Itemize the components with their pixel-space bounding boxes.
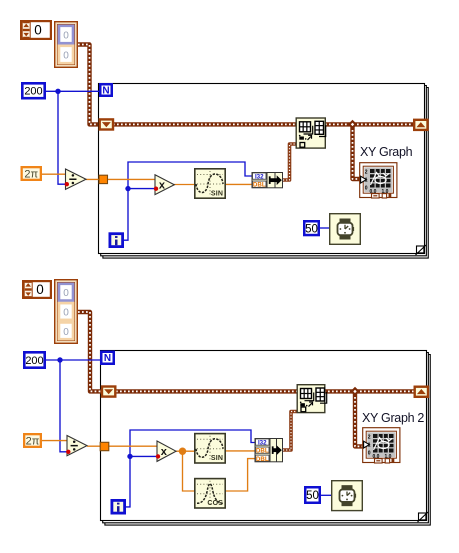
numeric constant 0 with increment/decrement loop2 — [23, 281, 51, 298]
svg-text:200: 200 — [25, 355, 43, 367]
junction: array wire branch loop2 — [350, 387, 359, 396]
Wait (ms) function loop1 — [330, 214, 361, 245]
svg-text:N: N — [104, 353, 111, 364]
wire: i terminal up and across to bundle I32 loop1 (blue) — [124, 162, 252, 240]
divide function loop2 — [67, 436, 87, 456]
svg-text:x: x — [159, 180, 166, 192]
numeric constant 200 loop1 — [22, 83, 44, 98]
wire: 2pi to divide loop2 (orange) — [42, 440, 67, 442]
svg-text:XY Graph: XY Graph — [360, 145, 413, 159]
numeric constant 50 loop2 — [305, 487, 320, 503]
terminal N loop2 — [101, 352, 114, 364]
svg-text:XY Graph 2: XY Graph 2 — [362, 411, 424, 425]
svg-text:SIN: SIN — [211, 455, 223, 462]
terminal i loop2 — [112, 500, 125, 513]
wire: array1 to left shift register (zigzag) — [78, 45, 98, 125]
svg-text:I32: I32 — [255, 174, 264, 181]
wire: branch down to COS loop2 (orange) — [183, 451, 195, 491]
wire: 200 to N terminal loop1 (blue) — [46, 90, 99, 92]
svg-text:I32: I32 — [258, 440, 267, 447]
svg-text:0: 0 — [63, 51, 69, 62]
wire: zigzag through Replace Array Subset 1 to right shift register — [113, 122, 414, 126]
svg-text:50: 50 — [305, 223, 318, 235]
wire: 200 branch down to divide loop1 (blue) — [58, 91, 66, 184]
divide function loop1 — [66, 169, 87, 189]
wire: 200 branch down to divide loop2 (blue) — [60, 360, 68, 452]
svg-text:0: 0 — [368, 451, 371, 457]
for-loop 1 border — [99, 84, 425, 254]
numeric constant 200 loop2 — [24, 352, 44, 367]
wire: zigzag branch down to XY Graph 2 — [355, 393, 363, 446]
XY Graph 2 indicator terminal — [362, 411, 424, 463]
wire: 200 to N terminal loop2 (blue) — [46, 359, 100, 361]
wire: zigzag through Replace Array Subset 2 to right shift register — [116, 389, 414, 393]
junction: array wire branch loop1 — [348, 120, 357, 129]
bundle function loop2 (I32 DBL DBL) — [255, 439, 283, 463]
array of cluster constant loop2 (3 elements) — [55, 280, 78, 344]
wire: COS out up to bundle DBL2 loop2 (orange) — [226, 459, 255, 491]
coercion dot multiply loop1 — [154, 187, 158, 191]
svg-text:0: 0 — [63, 288, 69, 299]
wire: SIN out to bundle DBL loop1 (orange) — [226, 183, 252, 185]
wire: divide out through tunnel to multiply loop2 (orange) — [87, 445, 157, 447]
left shift register loop1 — [100, 119, 113, 129]
svg-text:200: 200 — [24, 86, 42, 98]
node: blue junction dot loop1 at 200 branch — [55, 89, 60, 94]
coercion dot multiply loop2 — [156, 454, 160, 458]
wire: i branch to multiply loop1 (blue) — [128, 188, 155, 190]
multiply function loop2 — [157, 441, 176, 461]
svg-text:2: 2 — [365, 170, 368, 176]
COS function loop2 — [195, 479, 225, 508]
wire: array2 to left shift register (zigzag) — [78, 312, 101, 391]
svg-text:2: 2 — [368, 435, 371, 441]
right shift register loop1 — [414, 120, 427, 130]
multiply function loop1 — [155, 175, 174, 195]
Wait (ms) function loop2 — [332, 481, 363, 511]
coercion dot divide loop2 — [66, 450, 70, 454]
left shift register loop2 — [102, 387, 115, 397]
constant 2pi loop1 — [22, 167, 41, 180]
node: blue junction dot loop1 at i branch — [125, 186, 130, 191]
SIN function loop2 — [195, 434, 225, 463]
wire: divide out through tunnel to multiply loop1 (orange) — [86, 178, 155, 180]
terminal i loop1 — [110, 234, 123, 247]
Replace Array Subset loop2 — [297, 385, 327, 413]
svg-text:0: 0 — [63, 31, 69, 42]
coercion dot divide loop1 — [65, 182, 69, 186]
tunnel loop1 (orange) — [99, 175, 108, 183]
svg-text:0: 0 — [34, 23, 42, 38]
svg-text:COS: COS — [207, 500, 223, 507]
svg-text:DBL: DBL — [256, 448, 269, 455]
svg-text:50: 50 — [306, 490, 319, 502]
numeric constant 50 loop1 — [304, 221, 319, 235]
wire: 50 to Wait loop2 (blue) — [321, 494, 331, 496]
right shift register loop2 — [415, 387, 428, 397]
tunnel loop2 (orange) — [100, 442, 109, 450]
svg-text:N: N — [102, 85, 109, 96]
svg-text:DBL: DBL — [256, 456, 269, 463]
svg-text:x: x — [161, 446, 168, 458]
svg-text:0: 0 — [63, 308, 69, 319]
for-loop 2 border — [101, 351, 427, 521]
wire: 50 to Wait loop1 (blue) — [320, 227, 329, 229]
bundle function loop1 (I32 DBL) — [252, 173, 283, 189]
wire: i terminal up and across to bundle I32 loop2 (blue) — [126, 430, 255, 507]
svg-text:DBL: DBL — [253, 182, 266, 189]
svg-text:SIN: SIN — [211, 190, 223, 197]
svg-text:2π: 2π — [24, 168, 38, 180]
wire: zigzag branch down to XY Graph 1 — [353, 126, 361, 179]
node: orange junction dot loop2 — [179, 448, 186, 455]
node: blue junction dot loop2 at 200 branch — [57, 357, 62, 362]
wire: 2pi to divide loop1 (orange) — [40, 173, 66, 175]
SIN function loop1 — [195, 169, 225, 198]
wire: SIN out to bundle DBL loop2 (orange) — [226, 450, 255, 452]
XY Graph indicator terminal — [360, 145, 413, 198]
numeric constant 0 with increment/decrement loop1 — [21, 21, 51, 39]
wire: multiply out to SIN loop2 (orange) — [176, 450, 194, 452]
terminal N loop1 — [100, 84, 112, 96]
svg-text:0: 0 — [63, 327, 69, 338]
node: blue junction dot loop2 at i branch — [127, 454, 132, 459]
wire: multiply out to SIN loop1 (orange) — [174, 184, 194, 186]
wire: bundle output cluster to Replace Array Subset loop2 (dotted brown) — [283, 412, 297, 451]
svg-text:0: 0 — [365, 186, 368, 192]
svg-text:0: 0 — [36, 282, 44, 297]
Replace Array Subset loop1 — [296, 118, 326, 148]
wire: bundle output cluster to Replace Array Subset loop1 (dotted brown) — [283, 144, 296, 180]
array of cluster constant loop1 (2 elements) — [55, 22, 78, 68]
wire: i branch to multiply loop2 (blue) — [130, 455, 157, 457]
svg-text:2π: 2π — [26, 435, 40, 447]
constant 2pi loop2 — [24, 434, 41, 447]
